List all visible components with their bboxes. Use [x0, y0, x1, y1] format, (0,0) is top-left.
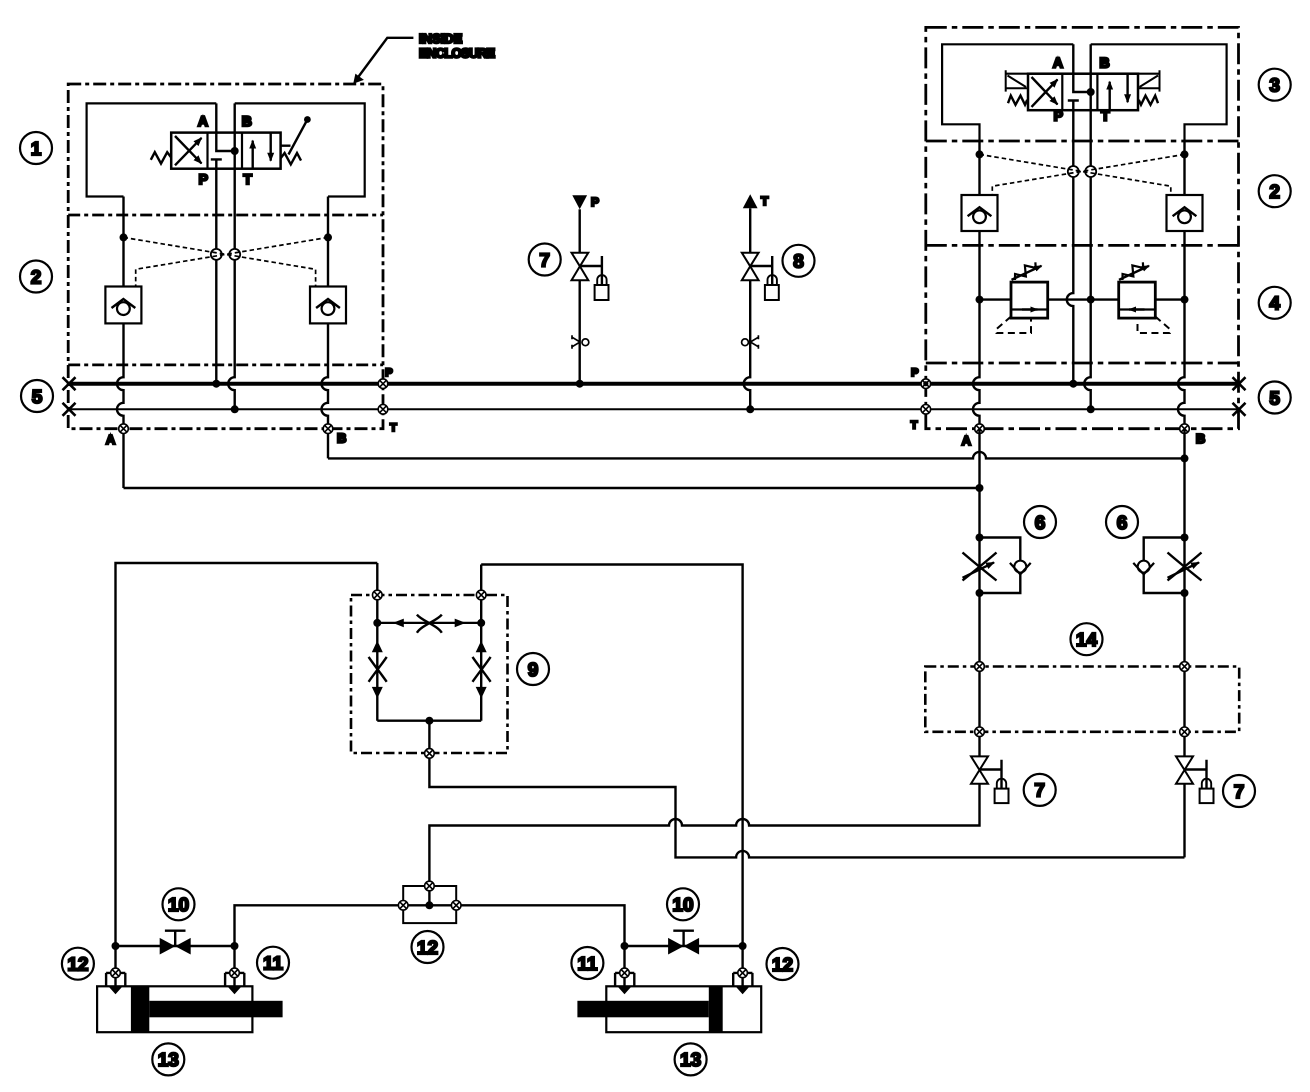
- pilot crossing bubble T: [229, 249, 240, 260]
- junction dot P test at P rail: [576, 380, 584, 388]
- valve 1 center cell blocked P: [211, 159, 222, 168]
- RIGHT-LOWER-GROUP: [124, 429, 1240, 886]
- manifold 12 bulkhead left: [398, 901, 408, 911]
- P test point arrow: [572, 195, 587, 209]
- valve 1 center cell A elbow: [216, 133, 234, 151]
- junction dot T test at T rail: [746, 405, 754, 413]
- valve 3 right cell parallel arrows: [1108, 82, 1110, 111]
- item circle 11 right: [571, 947, 603, 979]
- manifold 12 bulkhead right: [451, 901, 461, 911]
- P rail right cap X: [1233, 377, 1246, 390]
- item circle 2 right: [1259, 175, 1291, 207]
- item circle 8: [783, 245, 815, 277]
- relief valve 4B box: [1119, 282, 1156, 318]
- MIDDLE-TESTPOINTS-GROUP: [572, 194, 779, 413]
- right cylinder port fitting left: [620, 968, 630, 978]
- svg-text:3: 3: [1269, 76, 1280, 97]
- flow divider bottom U: [377, 721, 481, 754]
- lock symbol 7 bottom right: [1185, 760, 1207, 789]
- relief valve 4B spring and arrow: [1120, 259, 1146, 284]
- item circle 12 right: [767, 948, 799, 980]
- needle valve 8: [742, 253, 759, 281]
- valve 1 left cell crossed arrows: [175, 138, 202, 165]
- wire P test line upper: [579, 209, 581, 252]
- item9 bulkhead left input: [373, 590, 383, 600]
- manifold block outline left: [942, 44, 1073, 141]
- junction dot valve3 P at P rail: [1069, 380, 1077, 388]
- manifold 12 bulkhead top: [425, 881, 435, 891]
- wire A interconnect y488: [124, 487, 980, 489]
- valve 3 right spring: [1139, 96, 1158, 105]
- item circle 3: [1259, 69, 1291, 101]
- wire T test line lower: [744, 280, 751, 409]
- valve 1 lever: [281, 120, 308, 155]
- svg-text:7: 7: [539, 250, 550, 271]
- wire A line: [117, 197, 124, 489]
- valve 3 center cell blocked P: [1068, 101, 1079, 111]
- svg-text:P: P: [1054, 108, 1063, 124]
- svg-text:P: P: [591, 195, 599, 209]
- svg-text:T: T: [911, 420, 918, 432]
- needle valve 7 bottom right: [1176, 756, 1193, 783]
- check valve 2A box: [105, 287, 141, 324]
- manifold block outline right: [1091, 44, 1227, 141]
- flow control 6B bypass loop: [1144, 538, 1185, 594]
- valve 3 left cell crossed arrows: [1032, 80, 1058, 107]
- T test point arrow: [743, 194, 758, 208]
- svg-text:1: 1: [31, 139, 42, 160]
- wire flow divider output to B line: [429, 753, 1184, 857]
- lock symbol 7 bottom left: [980, 760, 1002, 789]
- pilot junction dot A: [120, 233, 128, 241]
- flow control 6A junction dots: [976, 534, 984, 542]
- port B bulkhead symbol right assy: [1180, 424, 1190, 434]
- junction dot T relief: [1087, 296, 1095, 304]
- T rail left cap X: [63, 403, 76, 416]
- wire right branch to flow divider: [481, 565, 742, 947]
- cylinder 13 right rod: [577, 1001, 708, 1018]
- svg-text:ENCLOSURE: ENCLOSURE: [419, 46, 495, 61]
- quick disconnect on P test line: [572, 335, 589, 349]
- flow control 6B check valve: [1138, 561, 1150, 573]
- directional valve 1 body: [171, 133, 280, 169]
- valve 3 A/B stubs up: [1073, 44, 1090, 73]
- valve 3 right solenoid: [1138, 70, 1160, 91]
- flow divider outward arrows: [393, 619, 404, 628]
- item circle 1: [20, 132, 52, 164]
- wire A line down right side: [429, 429, 979, 886]
- T rail: [69, 408, 1239, 410]
- needle valve 7 bottom left: [971, 756, 988, 783]
- svg-text:9: 9: [528, 660, 539, 681]
- manifold 12 center dot: [425, 901, 433, 909]
- cylinder 13 right body: [606, 986, 761, 1032]
- item circle 11 left: [257, 947, 289, 979]
- valve 3 top line across: [1006, 73, 1160, 75]
- cylinder 13 left piston: [131, 986, 149, 1032]
- T rail bulkhead at right enclosure entry: [921, 405, 931, 415]
- cylinder 13 right piston: [709, 986, 723, 1032]
- pilot dashed line A to right check: [124, 237, 316, 286]
- junction dot A relief: [976, 296, 984, 304]
- needle valve 7 mid: [572, 253, 589, 281]
- junction dot B interconnect: [1181, 454, 1189, 462]
- manifold block 12 center: [403, 886, 456, 923]
- item circle 10 right: [667, 888, 699, 920]
- manifold 12 wire left: [235, 905, 404, 946]
- wire B line: [322, 197, 329, 459]
- junction dot valve3 T at T rail: [1087, 405, 1095, 413]
- svg-text:P: P: [199, 171, 208, 187]
- left cylinder port fitting left: [111, 968, 121, 978]
- svg-text:A: A: [106, 432, 116, 447]
- valve 1 right spring: [281, 153, 301, 164]
- junction dot A interconnect: [976, 484, 984, 492]
- enclosure divider line y245.4: [926, 244, 1239, 247]
- enclosure divider line y215: [68, 214, 383, 217]
- item circle 7 bottom left: [1024, 774, 1056, 806]
- svg-text:2: 2: [1269, 182, 1280, 203]
- item circle 5 left: [21, 380, 53, 412]
- svg-text:B: B: [242, 113, 252, 129]
- port B bulkhead symbol: [323, 424, 333, 434]
- wire valve3 P down to P rail: [1067, 110, 1074, 384]
- svg-text:5: 5: [1269, 388, 1280, 409]
- wire A check line: [973, 141, 980, 429]
- BOTTOM-GROUP: [97, 881, 761, 1032]
- LEFT-LOWER-GROUP: [116, 563, 743, 946]
- item circle 13 right: [675, 1043, 707, 1075]
- svg-text:T: T: [243, 171, 252, 187]
- svg-text:12: 12: [772, 955, 793, 976]
- enclosure item9 dash-dot box: [351, 595, 508, 753]
- pilot dashed line B to left check: [136, 237, 328, 286]
- shutoff valve 10 right: [625, 945, 743, 947]
- item circle 13 left: [152, 1043, 184, 1075]
- valve 1 right cell parallel arrows: [251, 141, 253, 169]
- wire left cylinder top line: [116, 945, 235, 947]
- svg-text:A: A: [198, 113, 208, 129]
- svg-text:T: T: [761, 194, 769, 208]
- relief valve 4A spring and arrow: [1012, 259, 1038, 284]
- pilot dashed line A to right check: [980, 154, 1171, 195]
- svg-text:T: T: [390, 422, 397, 434]
- wire valve P down to P rail: [215, 169, 217, 384]
- wire P test line lower: [579, 280, 581, 384]
- svg-text:P: P: [911, 367, 918, 379]
- left cylinder port lines: [116, 946, 235, 986]
- svg-text:INSIDE: INSIDE: [419, 31, 463, 46]
- enclosure item3 dash-dot border: [926, 27, 1239, 428]
- item9 bulkhead output: [425, 749, 435, 759]
- valve 1 left spring: [151, 152, 171, 163]
- relief valve 4B pilot dashed loop: [1138, 317, 1170, 334]
- directional valve 3 body: [1028, 74, 1138, 111]
- relief valve 4A connection line: [980, 298, 1185, 300]
- cylinder 13 left rod: [149, 1001, 282, 1018]
- enclosure item1 dash-dot border: [68, 84, 383, 429]
- pilot junction dot B: [324, 233, 332, 241]
- svg-text:13: 13: [680, 1050, 701, 1071]
- svg-text:2: 2: [31, 267, 42, 288]
- item14 bulkhead A top: [975, 662, 985, 672]
- item14 bulkhead B top: [1180, 662, 1190, 672]
- item circle 6 right: [1106, 506, 1138, 538]
- shutoff valve 10 left: [160, 938, 176, 955]
- item14 bulkhead B bottom: [1180, 727, 1190, 737]
- manifold 12 internal wires: [403, 886, 456, 905]
- valve 3 left spring: [1008, 96, 1027, 105]
- wire B line down right side: [1183, 429, 1185, 858]
- pilot junction dot B: [1181, 150, 1189, 158]
- item9 bulkhead right input: [476, 590, 486, 600]
- svg-text:7: 7: [1034, 781, 1045, 802]
- P rail: [69, 382, 1239, 386]
- flow control 6B adjustable restrictor: [1168, 553, 1202, 581]
- junction dot valve T at T rail: [231, 405, 239, 413]
- manifold block outline left: [87, 103, 217, 196]
- junction dot B relief: [1181, 296, 1189, 304]
- flow divider center restrictor X: [417, 615, 442, 633]
- item circle 7 bottom right: [1223, 775, 1255, 807]
- flow control 6A adjustable restrictor: [963, 553, 997, 581]
- wire left branch to flow divider: [116, 563, 378, 946]
- relief valve 4A pilot dashed loop: [997, 317, 1032, 334]
- INSIDE ENCLOSURE leader arrow: [358, 38, 414, 78]
- svg-text:A: A: [1053, 55, 1063, 71]
- item circle 9: [517, 653, 549, 685]
- wire B interconnect y458: [328, 452, 1185, 458]
- svg-text:P: P: [385, 367, 392, 379]
- flow control 6A bypass loop: [980, 538, 1021, 594]
- svg-text:10: 10: [672, 895, 693, 916]
- item circle 5 right: [1259, 382, 1291, 414]
- RIGHT-ENCLOSURE-GROUP: [926, 27, 1239, 448]
- check valve 2B box right assy: [1167, 195, 1203, 231]
- manifold 12 wire right: [456, 905, 624, 946]
- item circle 14: [1071, 623, 1103, 655]
- flow divider left branch: [376, 623, 378, 721]
- enclosure item14 dash-dot box: [925, 667, 1239, 732]
- port A bulkhead symbol: [119, 424, 129, 434]
- valve 3 center cell A elbow: [1073, 74, 1090, 92]
- P rail left cap X: [63, 377, 76, 390]
- T rail bulkhead at left enclosure exit: [378, 405, 388, 415]
- item circle 12 far left: [62, 948, 94, 980]
- lock symbol valve 7 mid: [580, 256, 602, 285]
- wire B check line: [1178, 141, 1185, 429]
- pilot crossing bubble T: [1085, 166, 1096, 177]
- cylinder 13 left body: [97, 986, 252, 1032]
- svg-text:11: 11: [263, 954, 284, 975]
- right cylinder port lines: [625, 946, 743, 986]
- junction dot valve P at P rail: [212, 380, 220, 388]
- svg-text:12: 12: [417, 938, 438, 959]
- svg-text:8: 8: [793, 252, 804, 273]
- item circle 4: [1259, 287, 1291, 319]
- T rail right cap X: [1233, 403, 1246, 416]
- pilot junction dot A: [976, 150, 984, 158]
- svg-text:11: 11: [577, 954, 598, 975]
- check valve 2B box: [310, 287, 346, 324]
- enclosure divider line y364.9: [68, 363, 383, 366]
- item circle 7 mid: [529, 244, 561, 276]
- port A bulkhead symbol right assy: [975, 424, 985, 434]
- right cylinder port fitting right: [738, 968, 748, 978]
- wire valve3 T down to T rail: [1084, 110, 1090, 409]
- wire divider input stubs: [377, 563, 481, 623]
- svg-text:6: 6: [1035, 513, 1046, 534]
- enclosure divider line y363: [926, 362, 1239, 365]
- manifold block outline right: [235, 103, 365, 196]
- svg-text:T: T: [1101, 108, 1110, 124]
- P rail bulkhead at left enclosure exit: [378, 379, 388, 389]
- svg-text:10: 10: [168, 895, 189, 916]
- relief valve 4A box: [1011, 282, 1048, 318]
- item circle 6 left: [1024, 506, 1056, 538]
- wire valve T down to T rail: [228, 169, 235, 410]
- svg-text:B: B: [1100, 55, 1110, 71]
- flow divider top bar: [377, 622, 481, 624]
- flow divider right branch: [480, 623, 482, 721]
- LEFT-ENCLOSURE-GROUP: [68, 31, 495, 488]
- flow control 6A check valve: [1014, 561, 1026, 573]
- pilot crossing bubble P: [211, 249, 222, 260]
- lock symbol valve 8: [750, 256, 772, 285]
- quick disconnect on T test line: [742, 335, 759, 349]
- check valve 2A box right assy: [962, 195, 998, 231]
- RAILS-GROUP: [63, 367, 1246, 434]
- svg-text:12: 12: [67, 955, 88, 976]
- svg-text:7: 7: [1234, 782, 1245, 803]
- svg-text:13: 13: [158, 1050, 179, 1071]
- wire T test line upper: [749, 208, 751, 252]
- item circle 10 left: [163, 888, 195, 920]
- item14 bulkhead A bottom: [975, 727, 985, 737]
- valve 1 A/B stubs up: [216, 103, 234, 132]
- svg-text:B: B: [337, 431, 346, 446]
- enclosure divider line y141: [926, 140, 1239, 143]
- pilot crossing bubble P: [1068, 166, 1079, 177]
- item circle 2 left: [20, 261, 52, 293]
- svg-text:4: 4: [1269, 294, 1280, 315]
- pilot dashed line B to left check: [992, 154, 1184, 195]
- svg-text:5: 5: [32, 387, 43, 408]
- item circle 12 center: [412, 931, 444, 963]
- left cylinder port fitting right: [230, 968, 240, 978]
- svg-text:A: A: [962, 433, 972, 448]
- flow control 6B junction dots: [1181, 534, 1189, 542]
- svg-text:14: 14: [1076, 630, 1098, 651]
- P rail bulkhead at right enclosure entry: [921, 379, 931, 389]
- svg-text:6: 6: [1117, 513, 1128, 534]
- svg-text:B: B: [1196, 431, 1205, 446]
- valve 3 left solenoid: [1006, 70, 1028, 91]
